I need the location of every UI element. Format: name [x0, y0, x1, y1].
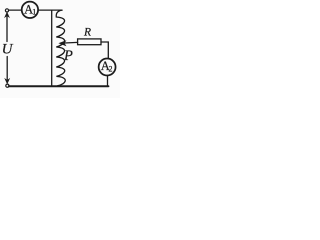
wire vertical lead of winding P [51, 10, 53, 86]
wire left rail upper [6, 16, 8, 42]
winding P coil [56, 10, 65, 86]
svg-text:1: 1 [32, 8, 36, 17]
wire top right segment [38, 9, 62, 11]
voltage arrow up [5, 12, 9, 17]
svg-text:U: U [2, 42, 14, 58]
wire A2 to bottom [107, 75, 109, 85]
svg-text:2: 2 [109, 64, 113, 73]
wiper arrow of P [65, 41, 78, 44]
svg-text:P: P [63, 48, 73, 64]
wire top left segment [9, 9, 22, 11]
wire left rail lower [6, 57, 8, 81]
terminal top-left [5, 9, 8, 12]
ammeter A1 [22, 2, 38, 18]
svg-text:R: R [83, 26, 91, 38]
wire resistor to corner [101, 42, 108, 59]
resistor R box [78, 39, 101, 45]
ammeter A2 [99, 59, 116, 76]
terminal bottom-left [6, 84, 9, 87]
bottom wire [9, 85, 109, 87]
voltage arrow down [5, 79, 9, 84]
